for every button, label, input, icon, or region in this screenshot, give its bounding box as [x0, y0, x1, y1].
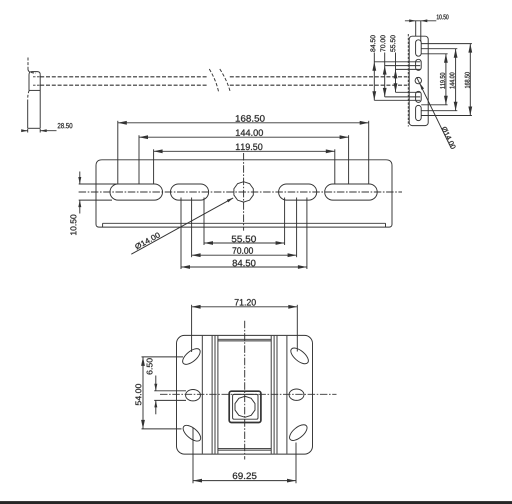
- slot bottom-right (tilted): [287, 422, 310, 443]
- plate fold line 1: [201, 336, 203, 454]
- dimension 168.50 (end view): [469, 44, 471, 116]
- lower plate hidden bend dashes: [28, 90, 30, 99]
- slot top-right (tilted): [288, 345, 311, 366]
- dimension 55.50 (main view): [204, 242, 285, 244]
- slot A (far left): [110, 184, 163, 200]
- plate fold line 2: [211, 336, 213, 454]
- leader line Ø14.00 (end view): [417, 77, 451, 147]
- mount plate edge (dashed): [407, 34, 409, 127]
- dimension 71.20 (plate view): [192, 306, 298, 308]
- break line right curve: [220, 69, 231, 93]
- slot middle-right: [289, 389, 304, 400]
- vertical centreline (main view): [243, 153, 245, 231]
- label Ø14.00 (end view): [441, 126, 456, 149]
- slot top-left (tilted): [180, 346, 203, 367]
- slot B: [171, 184, 209, 200]
- plate outline: [177, 335, 313, 454]
- plate right edge full height: [39, 74, 41, 128]
- centre boss inner square: [233, 394, 258, 419]
- dimension 144.00 (end view): [455, 49, 457, 111]
- dimension 28.50: [27, 129, 29, 133]
- beam hidden line inside clamp (top): [33, 76, 40, 78]
- plate fold line 6: [273, 336, 275, 454]
- slot bottom-left (tilted): [181, 422, 204, 443]
- dimension 70.00 (main view): [192, 254, 297, 256]
- plate fold line 3: [214, 336, 216, 454]
- dimension 10.50 (main view, slot height): [79, 183, 117, 185]
- beam top edge (dashed) left of break: [40, 76, 207, 78]
- break line left curve: [209, 69, 218, 93]
- bent tab hidden bend curve: [28, 70, 36, 74]
- dimension 70.00 (end view): [384, 53, 386, 97]
- beam top edge (dashed) right of break: [230, 76, 407, 78]
- clamp channel top outline: [29, 72, 40, 91]
- label Ø14.00 (main view): [134, 232, 160, 250]
- plate bottom edge: [28, 127, 41, 129]
- leader arrowhead (main view): [227, 198, 233, 202]
- vertical centreline (plate view): [244, 321, 246, 460]
- dimension 10.50 (slot width, end view): [415, 21, 417, 36]
- channel top inner edge 2: [218, 340, 271, 342]
- plate fold line 5: [270, 336, 272, 454]
- dimension 84.50 (main view): [181, 266, 307, 268]
- dimension 55.50 (end view): [395, 53, 397, 93]
- flange step left: [102, 223, 104, 227]
- dimension 6.50 (plate view): [154, 390, 186, 392]
- dimension 144.00 (main view): [139, 136, 349, 138]
- flange step right: [385, 223, 387, 227]
- bottom flange fold line: [103, 222, 386, 224]
- channel top inner edge 1: [218, 338, 271, 340]
- channel bottom inner edge 1: [218, 448, 271, 450]
- hole Ø14.00 (main view, polygon circle): [234, 182, 253, 202]
- beam bottom edge (dashed) right of break: [230, 84, 407, 86]
- bottom dark bar: [0, 501, 512, 504]
- leader arrowhead (end view): [420, 83, 424, 90]
- dimension 119.50 (main view): [154, 150, 335, 152]
- horizontal centreline (main view): [79, 191, 402, 193]
- dimension 168.50 (main view): [118, 122, 369, 124]
- slot middle-left: [186, 390, 201, 401]
- slot 4 (bottom): [416, 105, 422, 120]
- centre hole (polygon circle): [235, 396, 255, 417]
- dimension 84.50 (end view): [373, 53, 375, 101]
- slot 3: [416, 91, 422, 102]
- hole Ø14.00 (end view): [415, 77, 421, 83]
- slot D (far right): [325, 184, 378, 200]
- dimension 69.25 (plate view): [193, 480, 296, 482]
- dimension 119.50 (end view): [445, 54, 447, 105]
- bent tab hidden edge (vertical dashes): [27, 58, 29, 70]
- slot 1 (top): [416, 40, 422, 56]
- beam hidden line inside clamp (bottom): [33, 84, 40, 86]
- slot 2: [416, 59, 422, 70]
- plate fold line 8: [286, 336, 288, 454]
- plate fold line 7: [276, 336, 278, 454]
- horizontal centreline (plate view): [160, 393, 337, 395]
- plate fold line 4: [217, 336, 219, 454]
- slot C: [279, 184, 317, 200]
- channel bottom inner edge 2: [218, 449, 271, 451]
- leader line Ø14.00 (main view): [131, 198, 233, 254]
- beam bottom edge (dashed) left of break: [40, 84, 207, 86]
- centre boss outer square: [229, 391, 261, 422]
- clamp channel bottom edge: [29, 89, 40, 91]
- lower plate left edge: [27, 100, 29, 129]
- dimension 54.00 (plate view): [142, 357, 144, 429]
- main bracket outline: [96, 160, 392, 227]
- end bracket body: [409, 36, 428, 125]
